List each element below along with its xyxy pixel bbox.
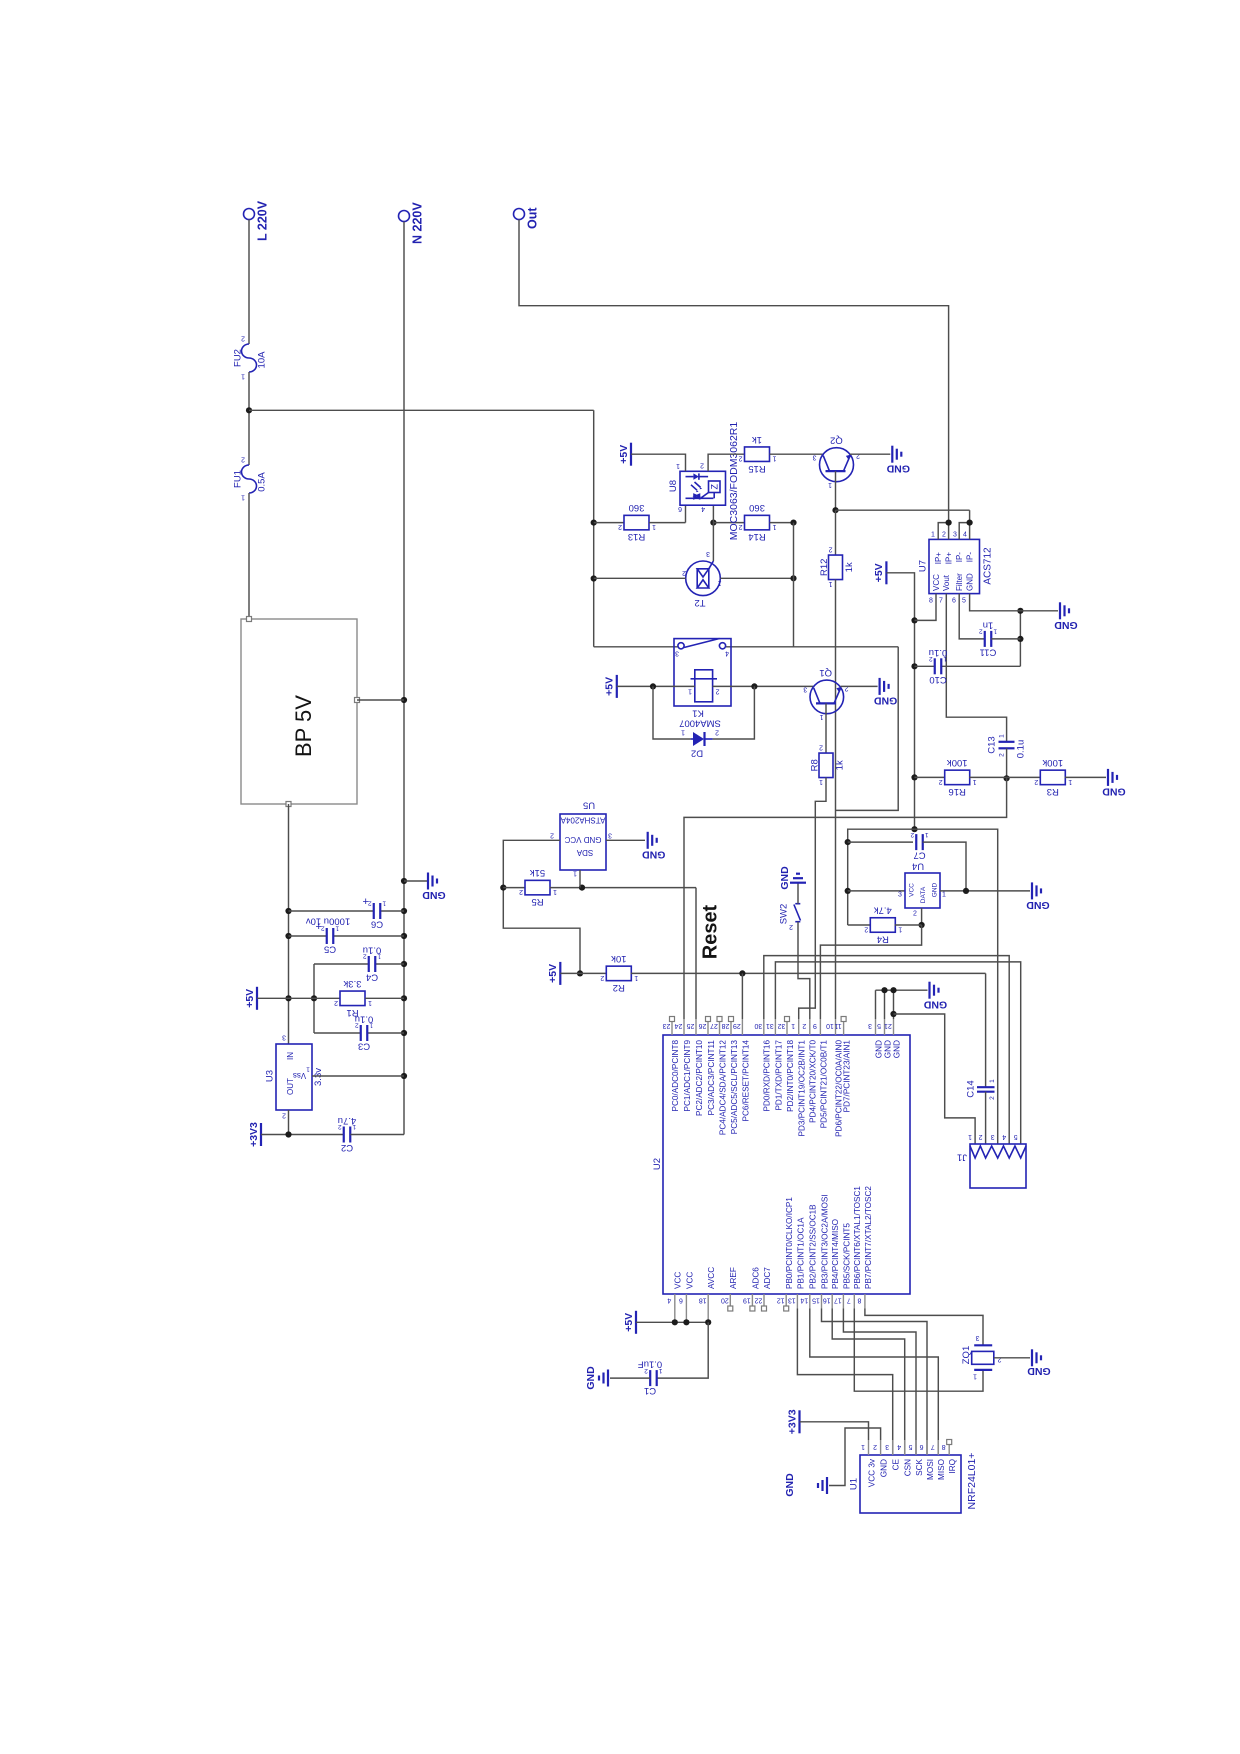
svg-text:1: 1 — [772, 523, 776, 530]
junction VCC 6 — [683, 1319, 689, 1325]
junction C5 right — [401, 933, 407, 939]
svg-text:6: 6 — [919, 1443, 923, 1450]
svg-text:0.5A: 0.5A — [256, 472, 267, 492]
svg-text:GND: GND — [880, 1459, 889, 1477]
capacitor C3 row wires — [314, 1032, 361, 1034]
U2 pin 13 PB1/PCINT1/OC1A — [788, 1217, 805, 1308]
svg-text:2: 2 — [618, 523, 622, 530]
terminal Out — [514, 207, 540, 229]
svg-text:1: 1 — [573, 869, 577, 876]
resistor R15 — [738, 434, 776, 474]
sensor U4 — [898, 861, 946, 918]
U2 pin 24 PC1/ADC1/PCINT9 — [675, 1019, 692, 1111]
svg-text:1k: 1k — [834, 760, 845, 770]
wire R12 top — [835, 510, 837, 555]
svg-text:28: 28 — [722, 1022, 730, 1029]
svg-text:1: 1 — [718, 579, 722, 586]
svg-text:3: 3 — [803, 685, 807, 692]
svg-text:1000u 10v: 1000u 10v — [306, 916, 351, 927]
svg-text:15: 15 — [812, 1296, 820, 1303]
power rail +3V3 — [248, 1122, 261, 1147]
wire U2 pin14 to U1 MISO — [810, 1309, 939, 1456]
BP pin square out- — [286, 802, 291, 807]
wire U2 pin31 TXD to J1 pin5 — [775, 962, 1020, 1144]
svg-text:1: 1 — [898, 925, 902, 932]
svg-text:2: 2 — [241, 334, 245, 341]
U2 pin 23 PC0/ADC0/PCINT8 — [663, 1017, 680, 1112]
svg-text:U2: U2 — [652, 1158, 663, 1170]
svg-text:7: 7 — [931, 1443, 935, 1450]
svg-text:2: 2 — [519, 888, 523, 895]
svg-text:PD7/PCINT23/AIN1: PD7/PCINT23/AIN1 — [843, 1040, 852, 1113]
wire Q2 base down — [835, 471, 837, 510]
ground — [790, 874, 806, 883]
diode D2 loop — [653, 686, 691, 739]
power rail +3V3 — [786, 1409, 799, 1434]
svg-text:OUT: OUT — [286, 1078, 295, 1095]
svg-text:4: 4 — [963, 532, 967, 539]
wire Out to ACS712 IP+ — [519, 220, 949, 523]
svg-text:R3: R3 — [1047, 786, 1059, 797]
wire +5V to coil — [617, 685, 695, 687]
junction U4 pin1/C7 — [963, 888, 969, 894]
wire U7 pin5 GND row — [970, 594, 1058, 611]
svg-text:1: 1 — [1068, 778, 1072, 785]
junction R14 right — [790, 520, 796, 526]
svg-text:1n: 1n — [983, 619, 994, 630]
wire C2 to N bus corner — [350, 1134, 404, 1136]
wire R4 row — [848, 924, 871, 926]
svg-text:C3: C3 — [358, 1041, 370, 1052]
svg-text:1: 1 — [241, 372, 245, 379]
svg-text:N 220V: N 220V — [411, 202, 425, 244]
svg-text:+5V: +5V — [604, 677, 616, 696]
svg-text:1: 1 — [377, 953, 381, 960]
wire R5 row left — [503, 887, 525, 889]
svg-text:+5V: +5V — [873, 563, 885, 582]
wire +5V to J1 pin3 — [915, 829, 998, 1144]
svg-text:1: 1 — [791, 1022, 795, 1029]
svg-text:PD5/PCINT21/OC0B/T1: PD5/PCINT21/OC0B/T1 — [819, 1040, 828, 1129]
svg-text:PB1/PCINT1/OC1A: PB1/PCINT1/OC1A — [796, 1217, 805, 1289]
junction T2 right — [790, 575, 796, 581]
svg-text:C4: C4 — [366, 972, 378, 983]
svg-text:3: 3 — [885, 1443, 889, 1450]
svg-text:4: 4 — [667, 1296, 671, 1303]
svg-text:4: 4 — [701, 505, 705, 512]
U2 pin 5 GND — [877, 1019, 892, 1058]
svg-text:3.3k: 3.3k — [343, 978, 361, 989]
svg-text:R2: R2 — [613, 982, 625, 993]
svg-text:+: + — [363, 896, 369, 908]
svg-text:GND: GND — [874, 1040, 883, 1058]
svg-text:360: 360 — [629, 502, 645, 513]
svg-text:PD0/RXD/PCINT16: PD0/RXD/PCINT16 — [763, 1040, 772, 1112]
svg-text:1: 1 — [652, 523, 656, 530]
wire R13 row — [594, 522, 624, 524]
svg-text:Q1: Q1 — [819, 667, 832, 678]
wire U2 pin30 RXD to J1 pin4 — [764, 956, 1009, 1144]
junction L-branch — [246, 407, 252, 413]
wire U2 pin8 XTAL2 to ZQ1 — [865, 1309, 983, 1346]
junction D2 left — [650, 683, 656, 689]
U1 pin 8 IRQ — [942, 1440, 957, 1474]
wire U4 pin3 — [848, 890, 905, 892]
U2 pin 3 GND — [868, 1019, 883, 1058]
BP pin square out+ — [355, 698, 360, 703]
svg-text:9: 9 — [813, 1022, 817, 1029]
svg-text:GND: GND — [1027, 1365, 1051, 1377]
junction C6 right — [401, 908, 407, 914]
svg-text:SCK: SCK — [915, 1458, 924, 1475]
wire GND to J1 pin1 — [894, 1014, 976, 1144]
U1 pin 4 CSN — [897, 1440, 912, 1476]
svg-text:AVCC: AVCC — [707, 1267, 716, 1289]
resistor R5 — [519, 867, 557, 907]
svg-text:2: 2 — [700, 461, 704, 468]
U2 pin 30 PD0/RXD/PCINT16 — [754, 1019, 771, 1111]
svg-text:29: 29 — [733, 1022, 741, 1029]
wire U7 pins 1-2 tie — [938, 523, 948, 540]
junction 3V3 — [285, 1131, 291, 1137]
wire DATA to U2 pin9 PD3 — [820, 925, 921, 1019]
sensor U7 ACS712 — [917, 532, 993, 605]
svg-text:GND: GND — [642, 849, 666, 861]
junction R1 right — [401, 995, 407, 1001]
svg-text:C1: C1 — [644, 1385, 656, 1396]
wire U2 pin16 to U1 CSN — [832, 1309, 905, 1456]
svg-text:2: 2 — [600, 974, 604, 981]
capacitor C1 — [638, 1359, 663, 1397]
svg-text:GND: GND — [886, 462, 910, 474]
svg-text:PB7/PCINT7/XTAL2/TOSC2: PB7/PCINT7/XTAL2/TOSC2 — [864, 1186, 873, 1289]
svg-text:100k: 100k — [947, 757, 968, 768]
wire U7 pins 3-4 tie — [959, 523, 969, 540]
wire R5 right / SDA — [550, 887, 697, 889]
optotriac U8 — [668, 461, 726, 511]
wire SW2 to GND — [797, 883, 799, 904]
svg-text:Reset: Reset — [700, 904, 722, 959]
U1 pin 1 VCC 3v — [861, 1440, 876, 1487]
svg-text:100k: 100k — [1042, 757, 1063, 768]
svg-text:PD3/PCINT19/OC2B/INT1: PD3/PCINT19/OC2B/INT1 — [798, 1040, 807, 1137]
junction +5V J1 branch — [911, 826, 917, 832]
capacitor C5 — [306, 916, 351, 955]
svg-text:2: 2 — [828, 546, 832, 553]
svg-text:PB5/SCK/PCINT5: PB5/SCK/PCINT5 — [842, 1223, 851, 1289]
svg-text:51k: 51k — [530, 867, 546, 878]
svg-text:C10: C10 — [929, 674, 946, 685]
svg-text:+5V: +5V — [623, 1313, 635, 1332]
svg-text:20: 20 — [721, 1296, 729, 1303]
wire U3 Vss to N bus — [312, 1075, 404, 1077]
junction AVCC — [705, 1319, 711, 1325]
svg-text:1: 1 — [241, 493, 245, 500]
wire U2 pin13 to U1 CE — [797, 1309, 892, 1456]
svg-text:1: 1 — [352, 1123, 356, 1130]
svg-text:4.7k: 4.7k — [874, 905, 892, 916]
svg-text:17: 17 — [834, 1296, 842, 1303]
svg-text:C11: C11 — [980, 646, 997, 657]
svg-text:1: 1 — [819, 778, 823, 785]
svg-text:2: 2 — [939, 778, 943, 785]
junction N-GND — [401, 878, 407, 884]
svg-text:C6: C6 — [371, 919, 383, 930]
svg-text:5: 5 — [877, 1022, 881, 1029]
resistor R16 — [939, 757, 977, 797]
wire T2 right — [720, 577, 793, 579]
svg-text:3: 3 — [675, 649, 679, 656]
MCU U2 box — [652, 1035, 910, 1294]
ground — [422, 873, 446, 902]
svg-text:2: 2 — [819, 744, 823, 751]
wire AVCC to C1 — [657, 1322, 709, 1378]
wire C14 to J1 pin2 — [985, 1092, 987, 1144]
wire U2 pin15 to U1 MOSI — [822, 1309, 928, 1456]
svg-text:11: 11 — [834, 1022, 841, 1029]
U2 pin 16 PB4/PCINT4/MISO — [823, 1219, 840, 1309]
svg-text:10: 10 — [826, 1022, 834, 1029]
BP pin square in — [247, 617, 252, 622]
transistor Q1 — [803, 667, 848, 720]
svg-text:Vout: Vout — [942, 574, 951, 591]
wire Q1 emitter to GND — [841, 685, 878, 687]
capacitor C6 row wires — [289, 910, 374, 912]
svg-text:2: 2 — [355, 1022, 359, 1029]
power rail +5V — [618, 443, 631, 466]
wire R13 to U8 pin6 — [649, 522, 686, 524]
svg-text:30: 30 — [754, 1022, 762, 1029]
wire C4/C3 left rail — [313, 964, 315, 1033]
svg-text:CE: CE — [892, 1458, 901, 1470]
svg-text:PB6/PCINT6/XTAL1/TOSC1: PB6/PCINT6/XTAL1/TOSC1 — [853, 1186, 862, 1289]
wire U3 out to 3V3 row — [288, 1110, 290, 1135]
wire IP- riser — [969, 510, 971, 522]
svg-text:13: 13 — [788, 1296, 796, 1303]
svg-text:PC0/ADC0/PCINT8: PC0/ADC0/PCINT8 — [671, 1040, 680, 1112]
svg-text:Q2: Q2 — [830, 435, 843, 446]
wire C1 to GND — [610, 1377, 650, 1379]
junction VCC row — [911, 617, 917, 623]
svg-text:2: 2 — [929, 655, 933, 662]
ground — [1026, 882, 1050, 911]
wire U7 pin8 VCC — [915, 594, 937, 621]
capacitor C4 row wires — [314, 963, 369, 965]
wire BP to N bus — [357, 699, 404, 701]
svg-text:BP 5V: BP 5V — [291, 695, 316, 757]
ground — [874, 678, 898, 707]
svg-text:D2: D2 — [691, 748, 703, 759]
svg-text:IN: IN — [286, 1052, 295, 1060]
U2 pin 11 PD7/PCINT23/AIN1 — [834, 1017, 851, 1113]
capacitor C3 — [355, 1014, 374, 1052]
svg-text:10A: 10A — [256, 351, 267, 369]
junction DATA/R4 — [919, 922, 925, 928]
svg-text:1: 1 — [989, 1079, 996, 1083]
fuse FU1 — [232, 455, 267, 500]
svg-text:R13: R13 — [628, 531, 645, 542]
wire R8 to U2 pin1 PD4 — [799, 778, 826, 1020]
wire C7 right to U4 pin1 row — [923, 842, 966, 891]
junction C4 right — [401, 961, 407, 967]
U2 pin 12 PB0/PCINT0/CLKO/ICP1 — [777, 1197, 794, 1311]
svg-text:1: 1 — [998, 734, 1005, 738]
svg-text:VCC: VCC — [674, 1272, 683, 1289]
chip U5 ATSHA204A — [550, 800, 612, 877]
junction C11 right — [1017, 636, 1023, 642]
svg-text:MISO: MISO — [937, 1459, 946, 1480]
svg-text:GND: GND — [784, 1473, 796, 1497]
svg-text:GND: GND — [874, 695, 898, 707]
resistor R14 — [738, 502, 776, 542]
wire divider node to U2 pin24 ADC1 — [684, 778, 1007, 1019]
U2 pin 14 PB2/PCINT2/SS/OC1B — [800, 1204, 817, 1309]
wire R14 to switched node — [770, 522, 794, 524]
capacitor C13 — [986, 734, 1026, 758]
svg-text:R12: R12 — [819, 559, 830, 576]
svg-text:U4: U4 — [912, 861, 924, 872]
svg-text:PB4/PCINT4/MISO: PB4/PCINT4/MISO — [831, 1219, 840, 1289]
U2 pin 17 PB5/SCK/PCINT5 — [834, 1223, 851, 1309]
junction GND row right — [1017, 608, 1023, 614]
svg-text:2: 2 — [715, 728, 719, 735]
wire +5V row to R1 — [257, 997, 341, 999]
svg-text:ATSHA204A: ATSHA204A — [560, 816, 605, 825]
svg-text:1: 1 — [819, 713, 823, 720]
svg-text:T2: T2 — [694, 597, 705, 608]
svg-text:3: 3 — [898, 892, 902, 899]
wire SW2 to U2 pin2 PD5 — [798, 922, 810, 1019]
svg-text:GND: GND — [883, 1040, 892, 1058]
svg-text:VCC: VCC — [685, 1272, 694, 1289]
svg-text:ZQ1: ZQ1 — [961, 1346, 972, 1364]
U2 pin 18 AVCC — [699, 1267, 716, 1309]
svg-text:3: 3 — [608, 831, 612, 838]
wire U8 pin6 stub — [685, 505, 687, 522]
power module BP 5V — [241, 619, 357, 804]
wire T2 left — [594, 577, 686, 579]
regulator U3 — [264, 1033, 324, 1118]
ground — [923, 982, 947, 1011]
U2 pin 10 PD6/PCINT22/OC0A/AIN0 — [826, 1019, 843, 1137]
svg-text:3: 3 — [812, 453, 816, 460]
junction GND 21 — [890, 987, 896, 993]
svg-text:1: 1 — [968, 1133, 972, 1140]
junction divider node — [1004, 775, 1010, 781]
svg-text:7: 7 — [939, 598, 943, 605]
svg-text:2: 2 — [738, 455, 742, 462]
junction GND 5 — [881, 987, 887, 993]
resistor R8 — [809, 744, 845, 786]
svg-text:MOC3063/FODM3062R1: MOC3063/FODM3062R1 — [728, 422, 740, 541]
svg-text:IP+: IP+ — [934, 552, 943, 565]
svg-text:8: 8 — [857, 1296, 861, 1303]
svg-text:2: 2 — [910, 831, 914, 838]
wire coil right to Q1 — [713, 685, 814, 687]
resistor R13 — [618, 502, 656, 542]
svg-text:2: 2 — [942, 532, 946, 539]
svg-text:23: 23 — [663, 1022, 671, 1029]
svg-text:3: 3 — [282, 1033, 286, 1040]
triac T2 — [682, 550, 722, 608]
svg-text:PC6/RESET/PCINT14: PC6/RESET/PCINT14 — [741, 1040, 750, 1122]
wire U5 pin2 to R5 net — [503, 840, 580, 973]
U1 pin 5 SCK — [908, 1440, 923, 1476]
svg-text:2: 2 — [338, 1123, 342, 1130]
capacitor C11 — [979, 619, 998, 657]
capacitor C5 row wires — [289, 935, 327, 937]
svg-text:GND: GND — [923, 998, 947, 1010]
relay K1 — [674, 639, 731, 719]
svg-text:R15: R15 — [748, 463, 765, 474]
junction +5V C5 — [285, 933, 291, 939]
svg-text:2: 2 — [550, 831, 554, 838]
svg-text:24: 24 — [675, 1022, 683, 1029]
wire +3V3 to U1 pin1 — [800, 1422, 869, 1440]
svg-text:5: 5 — [962, 598, 966, 605]
svg-text:2: 2 — [989, 1096, 996, 1100]
wire to R14 — [713, 522, 744, 524]
svg-text:ACS712: ACS712 — [983, 547, 994, 585]
svg-text:4: 4 — [725, 649, 729, 656]
svg-text:8: 8 — [942, 1443, 946, 1450]
resistor R4 — [864, 905, 902, 945]
radio module U1 NRF24L01+ — [848, 1453, 977, 1513]
svg-text:J1: J1 — [957, 1152, 967, 1163]
svg-text:1k: 1k — [844, 562, 855, 572]
U2 pin 15 PB3/PCINT3/OC2A/MOSI — [812, 1194, 829, 1308]
svg-text:31: 31 — [766, 1022, 774, 1029]
wire SDA to U2 pin25 — [695, 888, 697, 1019]
svg-text:FU1: FU1 — [232, 470, 243, 488]
svg-text:4: 4 — [1002, 1133, 1006, 1140]
svg-text:R8: R8 — [809, 759, 820, 771]
ground — [1102, 769, 1126, 798]
junction +5V C6 — [285, 908, 291, 914]
svg-text:VCC: VCC — [908, 883, 915, 897]
wire U4 pin1 to GND — [940, 890, 1030, 892]
wire C10 row — [915, 665, 935, 667]
svg-text:21: 21 — [884, 1022, 892, 1029]
svg-text:6: 6 — [952, 598, 956, 605]
U1 pin 3 CE — [885, 1440, 900, 1470]
svg-text:3: 3 — [706, 550, 710, 557]
wire +5V to R2 — [560, 972, 607, 974]
svg-text:1: 1 — [942, 892, 946, 899]
ground — [1054, 602, 1078, 631]
junction SDA — [579, 885, 585, 891]
U1 pin 7 MISO — [931, 1440, 946, 1480]
svg-text:2: 2 — [1034, 778, 1038, 785]
svg-text:1: 1 — [382, 900, 386, 907]
svg-text:3: 3 — [953, 532, 957, 539]
svg-text:PC4/ADC4/SDA/PCINT12: PC4/ADC4/SDA/PCINT12 — [718, 1040, 727, 1136]
junction U8 pin4 / R14 / T2 gate — [710, 520, 716, 526]
wire R16 left — [915, 776, 946, 778]
wire Q2 emitter to GND — [850, 453, 890, 455]
svg-text:2: 2 — [363, 953, 367, 960]
svg-text:SMA4007: SMA4007 — [679, 718, 721, 729]
svg-text:PB3/PCINT3/OC2A/MOSI: PB3/PCINT3/OC2A/MOSI — [820, 1194, 829, 1289]
svg-text:2: 2 — [789, 923, 793, 930]
junction +5V reset row — [577, 970, 583, 976]
svg-text:PC2/ADC2/PCINT10: PC2/ADC2/PCINT10 — [695, 1040, 704, 1116]
svg-text:16: 16 — [823, 1296, 831, 1303]
U1 pin 6 MOSI — [919, 1440, 934, 1480]
wire U4 pin2 DATA — [921, 908, 923, 925]
svg-text:U5: U5 — [583, 800, 595, 811]
wire C11 right — [991, 638, 1020, 640]
